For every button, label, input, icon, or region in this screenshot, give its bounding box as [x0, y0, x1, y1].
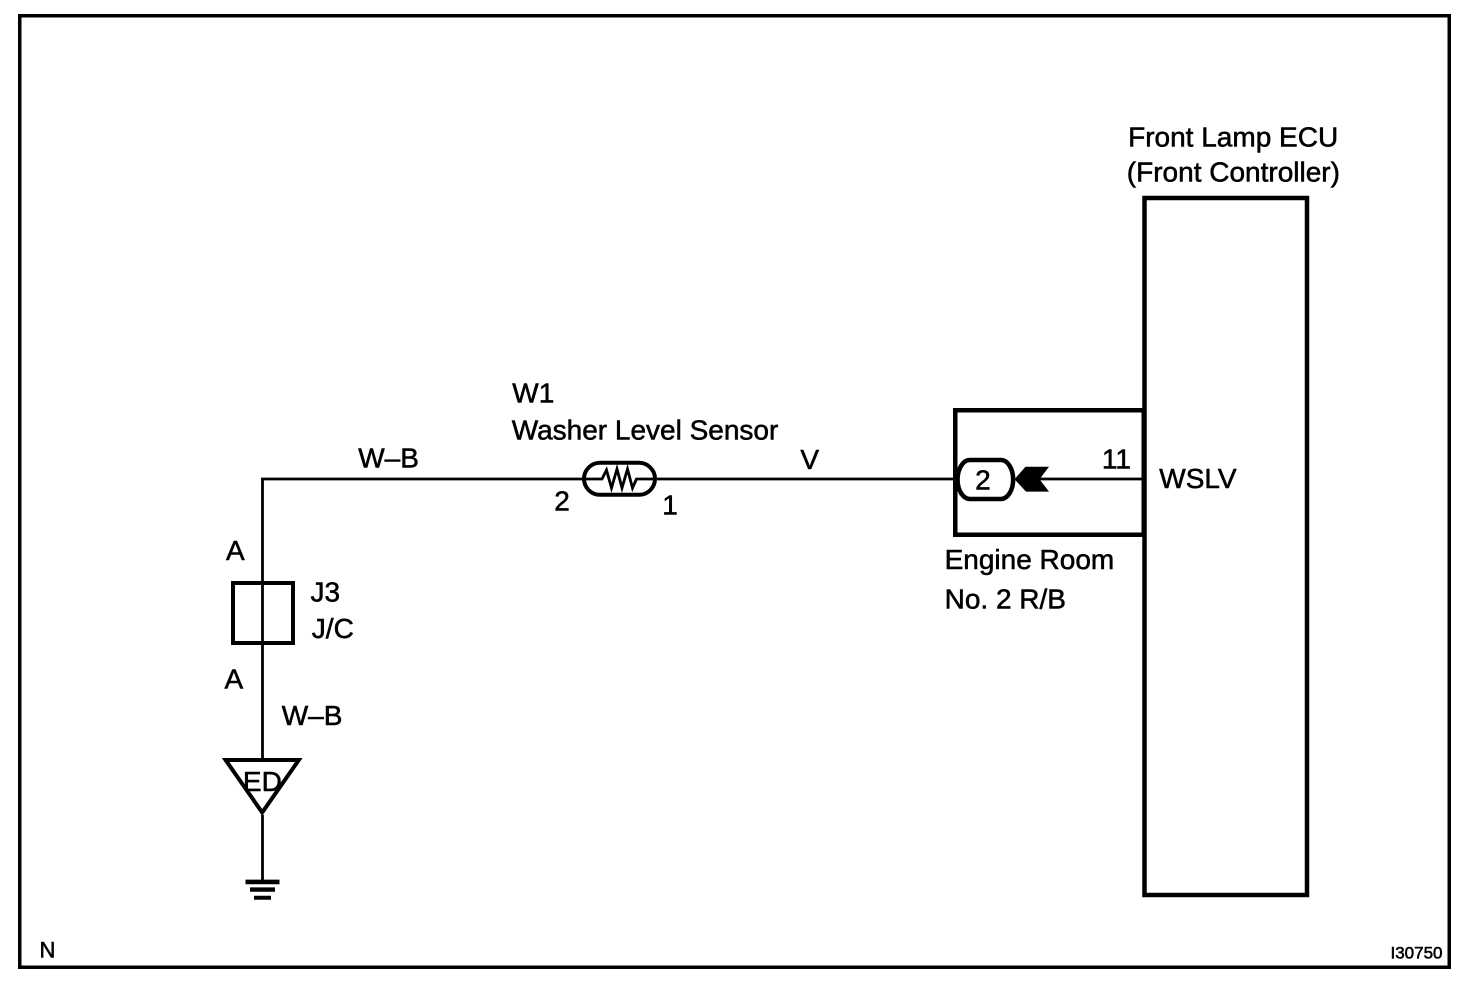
svg-text:A: A: [226, 535, 245, 566]
svg-text:No. 2 R/B: No. 2 R/B: [945, 584, 1066, 615]
resistor element inside W1: [584, 469, 655, 488]
svg-text:W–B: W–B: [358, 443, 419, 474]
ground triangle ED: [226, 760, 299, 813]
svg-text:2: 2: [554, 486, 570, 517]
svg-text:J3: J3: [311, 577, 341, 608]
sensor W1 stadium body: [584, 463, 655, 495]
svg-text:Engine Room: Engine Room: [945, 544, 1115, 575]
wire arrow to ECU pin 11: [1039, 478, 1144, 481]
connector oval pin 2: [958, 460, 1014, 499]
wire triangle to ground: [261, 815, 264, 882]
connector arrow: [1015, 467, 1050, 492]
wire sensor pin 1 to Engine Room connector, net V: [657, 478, 957, 481]
svg-text:J/C: J/C: [312, 613, 354, 644]
svg-text:N: N: [40, 937, 56, 962]
svg-text:2: 2: [975, 464, 991, 495]
svg-text:Washer Level Sensor: Washer Level Sensor: [512, 414, 779, 445]
svg-text:I30750: I30750: [1391, 944, 1443, 963]
ECU U1 Front Lamp ECU box: [1145, 198, 1308, 895]
svg-text:ED: ED: [243, 766, 282, 797]
svg-text:A: A: [225, 663, 244, 694]
svg-text:Front Lamp ECU: Front Lamp ECU: [1128, 121, 1338, 152]
svg-text:V: V: [800, 444, 819, 475]
relay block Engine Room No. 2 R/B box: [955, 410, 1144, 535]
svg-text:11: 11: [1102, 443, 1131, 474]
svg-text:1: 1: [662, 490, 678, 521]
svg-text:WSLV: WSLV: [1159, 463, 1237, 494]
svg-text:W–B: W–B: [282, 700, 343, 731]
svg-text:W1: W1: [512, 377, 554, 408]
ground symbol: [246, 882, 280, 898]
svg-text:(Front Controller): (Front Controller): [1127, 156, 1340, 187]
junction block J3 J/C: [233, 583, 293, 643]
wire corner to sensor pin 2, net W-B: [263, 479, 585, 760]
